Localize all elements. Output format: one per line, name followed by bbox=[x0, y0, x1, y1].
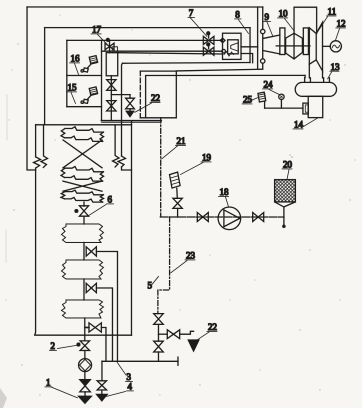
wire generator shaft bbox=[323, 45, 331, 47]
svg-text:13: 13 bbox=[331, 62, 341, 72]
wire outer downcomer x=27 bbox=[27, 7, 36, 170]
wire stem to collector bbox=[157, 352, 159, 361]
label 21 bbox=[162, 136, 186, 159]
label 7 bbox=[188, 8, 207, 36]
horizontal valve on boiler outlet branch bbox=[86, 326, 89, 328]
valve on branch to drain 22 bbox=[126, 95, 135, 112]
wire branch y=94.6 bbox=[111, 94, 130, 96]
box of element 15 bbox=[67, 106, 102, 108]
valve block 7b bbox=[203, 43, 214, 55]
label 4 bbox=[106, 381, 133, 396]
label 2 bbox=[49, 341, 77, 351]
label 19 bbox=[181, 152, 212, 174]
valve on feed line left bbox=[197, 213, 208, 222]
wire collector line y=360.8 bbox=[102, 360, 178, 362]
coil crossing X1 bbox=[63, 140, 102, 168]
HP turbine cone 9 bbox=[264, 35, 280, 54]
tank 20 hatched bbox=[275, 180, 296, 228]
shaft line bbox=[276, 45, 310, 47]
drain funnel 4 bbox=[97, 394, 108, 401]
superheater coil band 3 bbox=[61, 190, 104, 202]
wire stem valve 6 to HX1 bbox=[83, 216, 85, 224]
valve on feed line right bbox=[253, 213, 264, 222]
label 23 bbox=[171, 250, 196, 272]
wire stem between drain valves bbox=[157, 324, 159, 341]
scan streaks left edge bbox=[6, 95, 7, 262]
turbine control block 8 outer bbox=[223, 33, 242, 59]
label 24 bbox=[263, 80, 280, 95]
valve on branch 3 bbox=[89, 323, 101, 332]
drain funnel 22 upper bbox=[126, 111, 133, 116]
heat exchanger HX2 bbox=[61, 260, 103, 279]
svg-text:19: 19 bbox=[202, 153, 212, 163]
wire line D long to condenser bbox=[146, 75, 306, 77]
label 22 upper bbox=[135, 93, 160, 112]
flag 19 bbox=[170, 172, 181, 198]
heat exchanger HX1 bbox=[61, 224, 103, 243]
wire stem valve2 to pump bbox=[84, 350, 86, 358]
node circle on line 7b bbox=[222, 49, 226, 53]
svg-text:4: 4 bbox=[127, 381, 132, 391]
wire feedwater pipe y=217 bbox=[160, 216, 284, 218]
condenser 13 bbox=[295, 82, 336, 96]
corner smudge bbox=[0, 388, 7, 408]
wire branch to funnel 22 bbox=[180, 331, 194, 334]
valve (upper) on drain line bbox=[107, 80, 116, 91]
wire branch y=327.5 left with valve bbox=[85, 326, 89, 328]
svg-text:24: 24 bbox=[264, 80, 274, 90]
wire right edge x=101.5 down to header bbox=[101, 40, 103, 120]
svg-text:22: 22 bbox=[208, 322, 217, 332]
LP turbine 11 bbox=[309, 22, 322, 71]
valve 19 stem bbox=[177, 208, 179, 217]
svg-text:11: 11 bbox=[328, 7, 337, 17]
svg-text:20: 20 bbox=[283, 160, 293, 170]
wire steam line y=40.4 to valve 7a bbox=[67, 39, 223, 41]
flag 25 bbox=[258, 92, 266, 108]
pump 18 bbox=[218, 207, 241, 230]
label 16 bbox=[70, 53, 81, 74]
coil crossing X2 bbox=[63, 181, 102, 191]
wire line C to wall bbox=[176, 69, 262, 71]
wire line A right segment to junction bbox=[241, 54, 253, 63]
valve drain line x=111.3 bbox=[110, 76, 112, 121]
svg-text:6: 6 bbox=[107, 194, 112, 204]
svg-text:16: 16 bbox=[71, 53, 81, 63]
wire stem coil to valve 6 bbox=[83, 202, 85, 206]
svg-text:5: 5 bbox=[147, 280, 152, 290]
turbine control block 8 inner bbox=[228, 40, 239, 54]
pump 1 circle bbox=[79, 359, 92, 372]
wire main steam top line y=7 bbox=[27, 6, 263, 8]
label 14 bbox=[293, 118, 318, 130]
valve 6 bbox=[75, 206, 89, 216]
label 8 bbox=[235, 10, 249, 34]
instrument circle 24 bbox=[279, 94, 284, 108]
wire stem HX1-HX2 bbox=[83, 242, 85, 259]
wire stem pump down bbox=[84, 371, 86, 379]
label 25 bbox=[242, 95, 258, 105]
nozzle detail in block 8 bbox=[231, 43, 238, 51]
wire dash-dot line 21 bbox=[160, 118, 162, 217]
wire break mark on line A bbox=[224, 52, 234, 57]
wire drain header y=120.7 bbox=[102, 120, 162, 122]
svg-text:12: 12 bbox=[337, 19, 346, 29]
valve block 7a bbox=[203, 32, 214, 45]
node diamond on line 7a bbox=[220, 38, 225, 43]
steam bridge pipe over turbine 10 bbox=[294, 7, 317, 33]
wire boiler top edge y=124.8 bbox=[36, 124, 132, 126]
wire line B y=63 from x=250 to x=122.4 bbox=[122, 61, 250, 64]
valve below flag 19 bbox=[173, 198, 182, 208]
wire condensate line to hotwell bbox=[265, 107, 303, 109]
svg-text:17: 17 bbox=[92, 24, 102, 34]
drain funnel 22 lower bbox=[188, 340, 199, 351]
svg-text:21: 21 bbox=[177, 136, 186, 146]
label 12 bbox=[335, 19, 345, 41]
hotwell side connection box bbox=[303, 103, 308, 114]
svg-text:15: 15 bbox=[68, 82, 78, 92]
flange circle upper bbox=[261, 29, 265, 33]
label 20 bbox=[282, 160, 293, 180]
svg-text:8: 8 bbox=[235, 10, 240, 20]
svg-text:10: 10 bbox=[279, 9, 289, 19]
wire stem HX2-HX3 bbox=[83, 279, 85, 300]
wire inner frame left x=44.6 bbox=[44, 28, 46, 125]
label 17 bbox=[91, 24, 106, 43]
valve on drain branch bbox=[167, 330, 179, 339]
label 15 bbox=[67, 82, 78, 103]
hotwell 14 bbox=[308, 96, 323, 117]
wire stem to drain 1 bbox=[84, 392, 86, 396]
svg-text:23: 23 bbox=[186, 251, 196, 261]
check valve below pump bbox=[80, 380, 91, 392]
wire extraction branch 1 bbox=[96, 251, 117, 361]
svg-text:25: 25 bbox=[243, 95, 253, 105]
svg-text:18: 18 bbox=[220, 187, 230, 197]
wire blowdown branch 3 y=327.5 bbox=[85, 326, 89, 328]
wire dash-dot line 23 upper bbox=[158, 217, 170, 314]
svg-text:14: 14 bbox=[294, 120, 304, 130]
wire stem below HX3 bbox=[84, 318, 86, 341]
superheater coil band 2 bbox=[61, 166, 104, 181]
wire right wall stub x=115.1 bbox=[113, 125, 120, 167]
flange circle lower bbox=[261, 59, 265, 63]
valve 2 bbox=[77, 341, 90, 351]
superheater coil band 1 bbox=[61, 127, 104, 142]
wire corner to valve 4 bbox=[101, 361, 103, 380]
wire stub block8 to wall bbox=[241, 46, 258, 48]
wire drain branch y=334.2 bbox=[158, 333, 167, 335]
wire exhaust to condenser bbox=[309, 64, 322, 78]
drain stack valve lower bbox=[154, 341, 164, 352]
svg-text:22: 22 bbox=[151, 93, 160, 103]
drain funnel 1 bbox=[79, 396, 92, 403]
wire inner frame right x=250 down bbox=[249, 28, 251, 63]
wire long bottom line y=334.8 bbox=[35, 334, 132, 336]
wire line D vertical bbox=[145, 76, 147, 118]
generator 12 bbox=[330, 41, 341, 52]
turbine 10 right plate bbox=[303, 28, 308, 55]
wire right boundary x=131.5 bbox=[130, 121, 132, 335]
label 5 bbox=[147, 276, 158, 290]
wire steam line y=51.2 to valve 7b bbox=[102, 50, 222, 52]
wire right wall x=121.5 with wall-break bbox=[121, 63, 124, 156]
label 18 bbox=[218, 187, 229, 207]
valve (lower) on drain line bbox=[107, 101, 116, 111]
wire left wall stub x=43.5 bbox=[41, 125, 48, 168]
safety valve 15 flag bbox=[81, 87, 98, 104]
svg-text:7: 7 bbox=[189, 8, 194, 18]
safety valve 16 flag bbox=[81, 56, 98, 73]
box of element 16 bbox=[67, 74, 102, 76]
label 3 bbox=[117, 362, 132, 382]
label 11 bbox=[317, 7, 336, 34]
wire drain stack valve upper bbox=[154, 314, 164, 325]
condenser neck nubs bbox=[305, 78, 330, 83]
label 22 lower bbox=[196, 322, 217, 341]
wire line C dashed left side bbox=[139, 71, 141, 118]
svg-text:1: 1 bbox=[46, 377, 51, 387]
header box under valve 17 bbox=[106, 53, 118, 76]
label 13 bbox=[328, 62, 340, 79]
svg-text:2: 2 bbox=[50, 341, 55, 351]
valve on extraction branch 1 bbox=[86, 247, 96, 256]
wire inner frame top y=27.6 bbox=[45, 27, 250, 29]
wire line A y=53 from header box to block 8 bbox=[118, 53, 223, 54]
label 1 bbox=[45, 377, 78, 397]
valve on extraction branch 2 bbox=[86, 283, 96, 292]
heat exchanger HX3 bbox=[61, 300, 103, 318]
wire left edge of boxes 15/16 bbox=[66, 40, 68, 106]
wire left downcomer x=35.6 with wall-break bbox=[35, 125, 37, 157]
turbine 10 left plate bbox=[280, 28, 285, 55]
wire stem to drain 4 bbox=[101, 390, 103, 394]
label 6 bbox=[88, 194, 114, 216]
label 9 bbox=[264, 12, 273, 36]
end cap of collector bbox=[177, 357, 179, 365]
wire line C rectangle bbox=[140, 71, 176, 118]
svg-text:3: 3 bbox=[126, 372, 131, 382]
valve 4 bbox=[97, 381, 106, 390]
valve 17 bbox=[105, 38, 118, 52]
label 10 bbox=[278, 9, 295, 32]
svg-text:9: 9 bbox=[265, 12, 270, 22]
wire branch 3 corner down bbox=[101, 327, 106, 361]
wire extraction branch 2 bbox=[96, 288, 112, 361]
turbine inlet wall bbox=[258, 7, 263, 69]
turbine 10 barrel bbox=[286, 33, 303, 59]
